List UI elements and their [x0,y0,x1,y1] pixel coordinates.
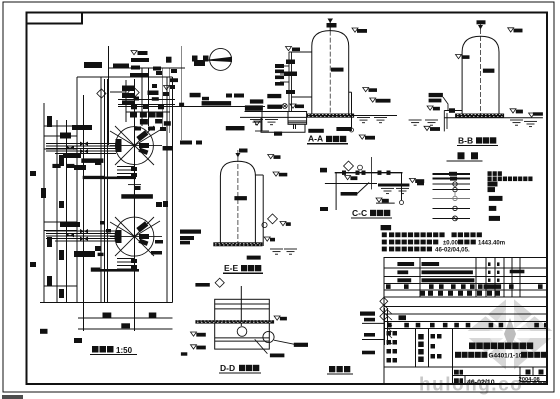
E-E left labels [180,230,201,245]
stamp blob [399,315,407,320]
title block lower verticals [415,329,547,384]
label E-E section [223,263,263,273]
detail wall hatch ticks [388,310,393,344]
left small cells chars [387,331,442,363]
thick pipe below tank T2 [100,269,139,272]
label A-A section [307,134,348,144]
dimension line left D [83,95,85,331]
C-C circle tag [358,165,363,170]
WL marker B-B top right [508,28,523,33]
extra plan vertical [100,77,102,303]
tank B-B body [462,22,499,117]
pipe bundle 2 to tank T2 [46,231,116,241]
svg-text:E-E: E-E [224,263,239,273]
A-A right ground line [354,115,397,117]
svg-text:46-02/10: 46-02/10 [467,379,495,386]
agitator ladder below T1 [117,167,135,177]
D-D left WL markers [191,332,206,337]
agitator link line between tanks [128,165,141,217]
valves on bundle 1 [80,142,88,146]
manifold grid top center [108,46,185,145]
label D-D section [219,363,261,373]
title block frame [384,258,547,385]
misc plan label blobs [40,125,424,343]
D-D diamond tag top [215,278,224,287]
svg-text:G4401/1-10: G4401/1-10 [489,353,523,360]
B-B left bottom label [430,127,440,131]
WL marker A-A left [286,47,301,52]
note line 2 [382,240,439,245]
C-C WL marker [345,176,358,181]
C-C right WL [409,178,424,183]
header char row 2 [420,291,500,296]
B-B right WL and hatches [510,109,523,114]
watermark diamond logo [464,296,556,373]
watermark corner bar [2,395,23,399]
big inlet bar left of A-A [245,105,263,110]
circled number on standpipe [262,222,267,227]
vertical text 电气专业 [418,334,424,362]
WL marker E-E top right [268,155,281,159]
diamond tag on standpipe [268,214,278,224]
title block verticals upper [420,258,520,298]
tank A-A level label [331,68,344,72]
connector line manifold to A-A [245,112,291,132]
profession char row [387,323,547,328]
B-B inlet leader and valve [443,97,462,131]
title strip top-left [27,13,83,24]
D-D leader to label [274,340,295,344]
A-A ground line left [240,116,307,118]
C-C valves on pipe [342,171,391,175]
A-A left valve blobs [275,60,297,95]
D-D leader 2 [255,339,268,353]
C-C ground hatches [381,188,394,193]
legend row 7 stop valve [433,216,501,221]
svg-text:46-02/04,05.: 46-02/04,05. [435,246,470,253]
tank T2 plan circle [115,217,154,256]
svg-text:C-C: C-C [352,208,367,218]
tank T2 blades [136,221,148,232]
tank A-A vent pipe [327,19,337,31]
dimension line left B [56,120,58,303]
WL markers right of A-A [363,88,377,92]
dimension line left C [66,120,68,303]
D-D ground band [195,320,274,323]
tank T1 plan circle [115,127,153,165]
D-D WL right of ground [274,316,287,320]
scale cell [522,382,547,385]
label blobs above plan [84,58,205,77]
ground hatch right of A-A [357,118,370,123]
row 图号 + number [454,378,463,383]
tank T2 agitator cross [110,217,162,256]
svg-text:A-A: A-A [308,134,323,144]
detail wall [362,308,388,345]
plan wall right [172,77,174,303]
tank E-E level label [234,196,247,200]
WL marker left of B-B [456,55,470,59]
tank B-B base slab [455,114,504,118]
plan wall top [77,76,173,78]
A-A bottom labels [308,127,352,133]
thick pipe below tank T1 [100,177,136,180]
vertical pipe pair in plan [104,79,106,303]
D-D circle big [263,331,274,342]
row 图别 [454,370,544,375]
label 平面图 1:50 [90,346,137,355]
D-D box [215,286,270,349]
labels between plan and A-A [190,93,283,136]
dimension text blobs left margin [30,116,64,298]
dimension line left A [43,103,45,303]
A-A pit water level [290,104,296,108]
A-A left feed pipes [280,52,312,112]
tank E-E base slab [213,242,262,246]
ground hatch below E-E [270,249,283,254]
WL marker B-B left [427,106,440,110]
notes title 说明 [381,225,392,230]
C-C ground slab [378,184,409,187]
DN diamond 2 left [97,89,106,98]
agitator ladder below T2 [117,259,135,270]
label B-B section [457,136,498,146]
legend row 5 pneumatic valve (grey) [433,193,503,201]
E-E right standpipe [255,175,263,246]
plan wall bottom [77,302,173,304]
tank E-E vent [235,149,247,158]
dim extension lines left [44,125,77,127]
drain loop under A-A [261,118,305,132]
ground hatch left of B-B [409,120,422,125]
WL in manifold right [164,86,170,90]
D-D circle small [237,327,247,337]
legend title 图例 [446,152,482,161]
manifold valve blobs [122,78,184,131]
WL marker top right of A-A [352,28,367,33]
legend row 6 butterfly valve [433,206,497,211]
C-C left labels [320,168,357,211]
dim line bottom 2 [78,328,173,330]
north symbol circle [166,48,232,70]
pipe bundle 1 to tank T1 [46,144,116,154]
plan axis line [133,79,135,331]
dim line bottom left extension [40,302,77,304]
tank A-A base slab [307,114,355,118]
detail labels [360,312,375,355]
drawing title line 2 [455,352,487,358]
label detail 进图一 [327,366,353,374]
plan wall left [76,77,78,303]
header char row 1 [386,284,543,289]
svg-text:1443.40m: 1443.40m [478,241,505,247]
WL above manifold [131,51,148,56]
note line 3 [382,247,432,252]
svg-text:B-B: B-B [458,136,473,146]
C-C diamond tag [344,161,354,171]
A-A pit [288,112,307,130]
WL markers on standpipe [280,222,291,226]
ground hatch left of A-A pit [250,120,263,125]
dim line top [118,106,265,108]
DN diamond in manifold [128,87,139,98]
B-B left inlet labels [429,93,443,103]
revision row bars [397,262,524,282]
plan wall inner right [166,77,168,303]
tank E-E body [220,150,255,245]
label C-C section [351,208,392,218]
A-A right drain pipe [349,92,354,132]
circled valve left of A-A [282,104,287,109]
C-C bottom WL [376,198,389,203]
note line 1 [382,232,482,237]
C-C drain circle [400,201,404,205]
B-B ground line [444,117,543,119]
drawing title line 1 [469,343,533,350]
dim line bottom 1 [78,317,173,319]
svg-text:D-D: D-D [220,363,235,373]
svg-text:1:50: 1:50 [116,346,133,355]
tank A-A body [312,31,349,117]
legend row 4 valve [433,187,496,192]
C-C main pipe [325,157,403,210]
tank T1 agitator cross [110,126,162,165]
E-E bottom label [247,256,261,260]
tank B-B vent [477,20,486,29]
tank T1 blades [136,130,148,141]
legend row 1 pipe [433,171,502,176]
approval diamonds left edge [380,297,388,320]
legend row 2 pipe [433,177,533,182]
valves on bundle 2 [80,229,88,233]
legend row 3 valve [433,182,498,187]
plan top bar label [131,58,149,62]
svg-text:2004-08: 2004-08 [519,377,541,383]
tank B-B level label [483,69,495,73]
